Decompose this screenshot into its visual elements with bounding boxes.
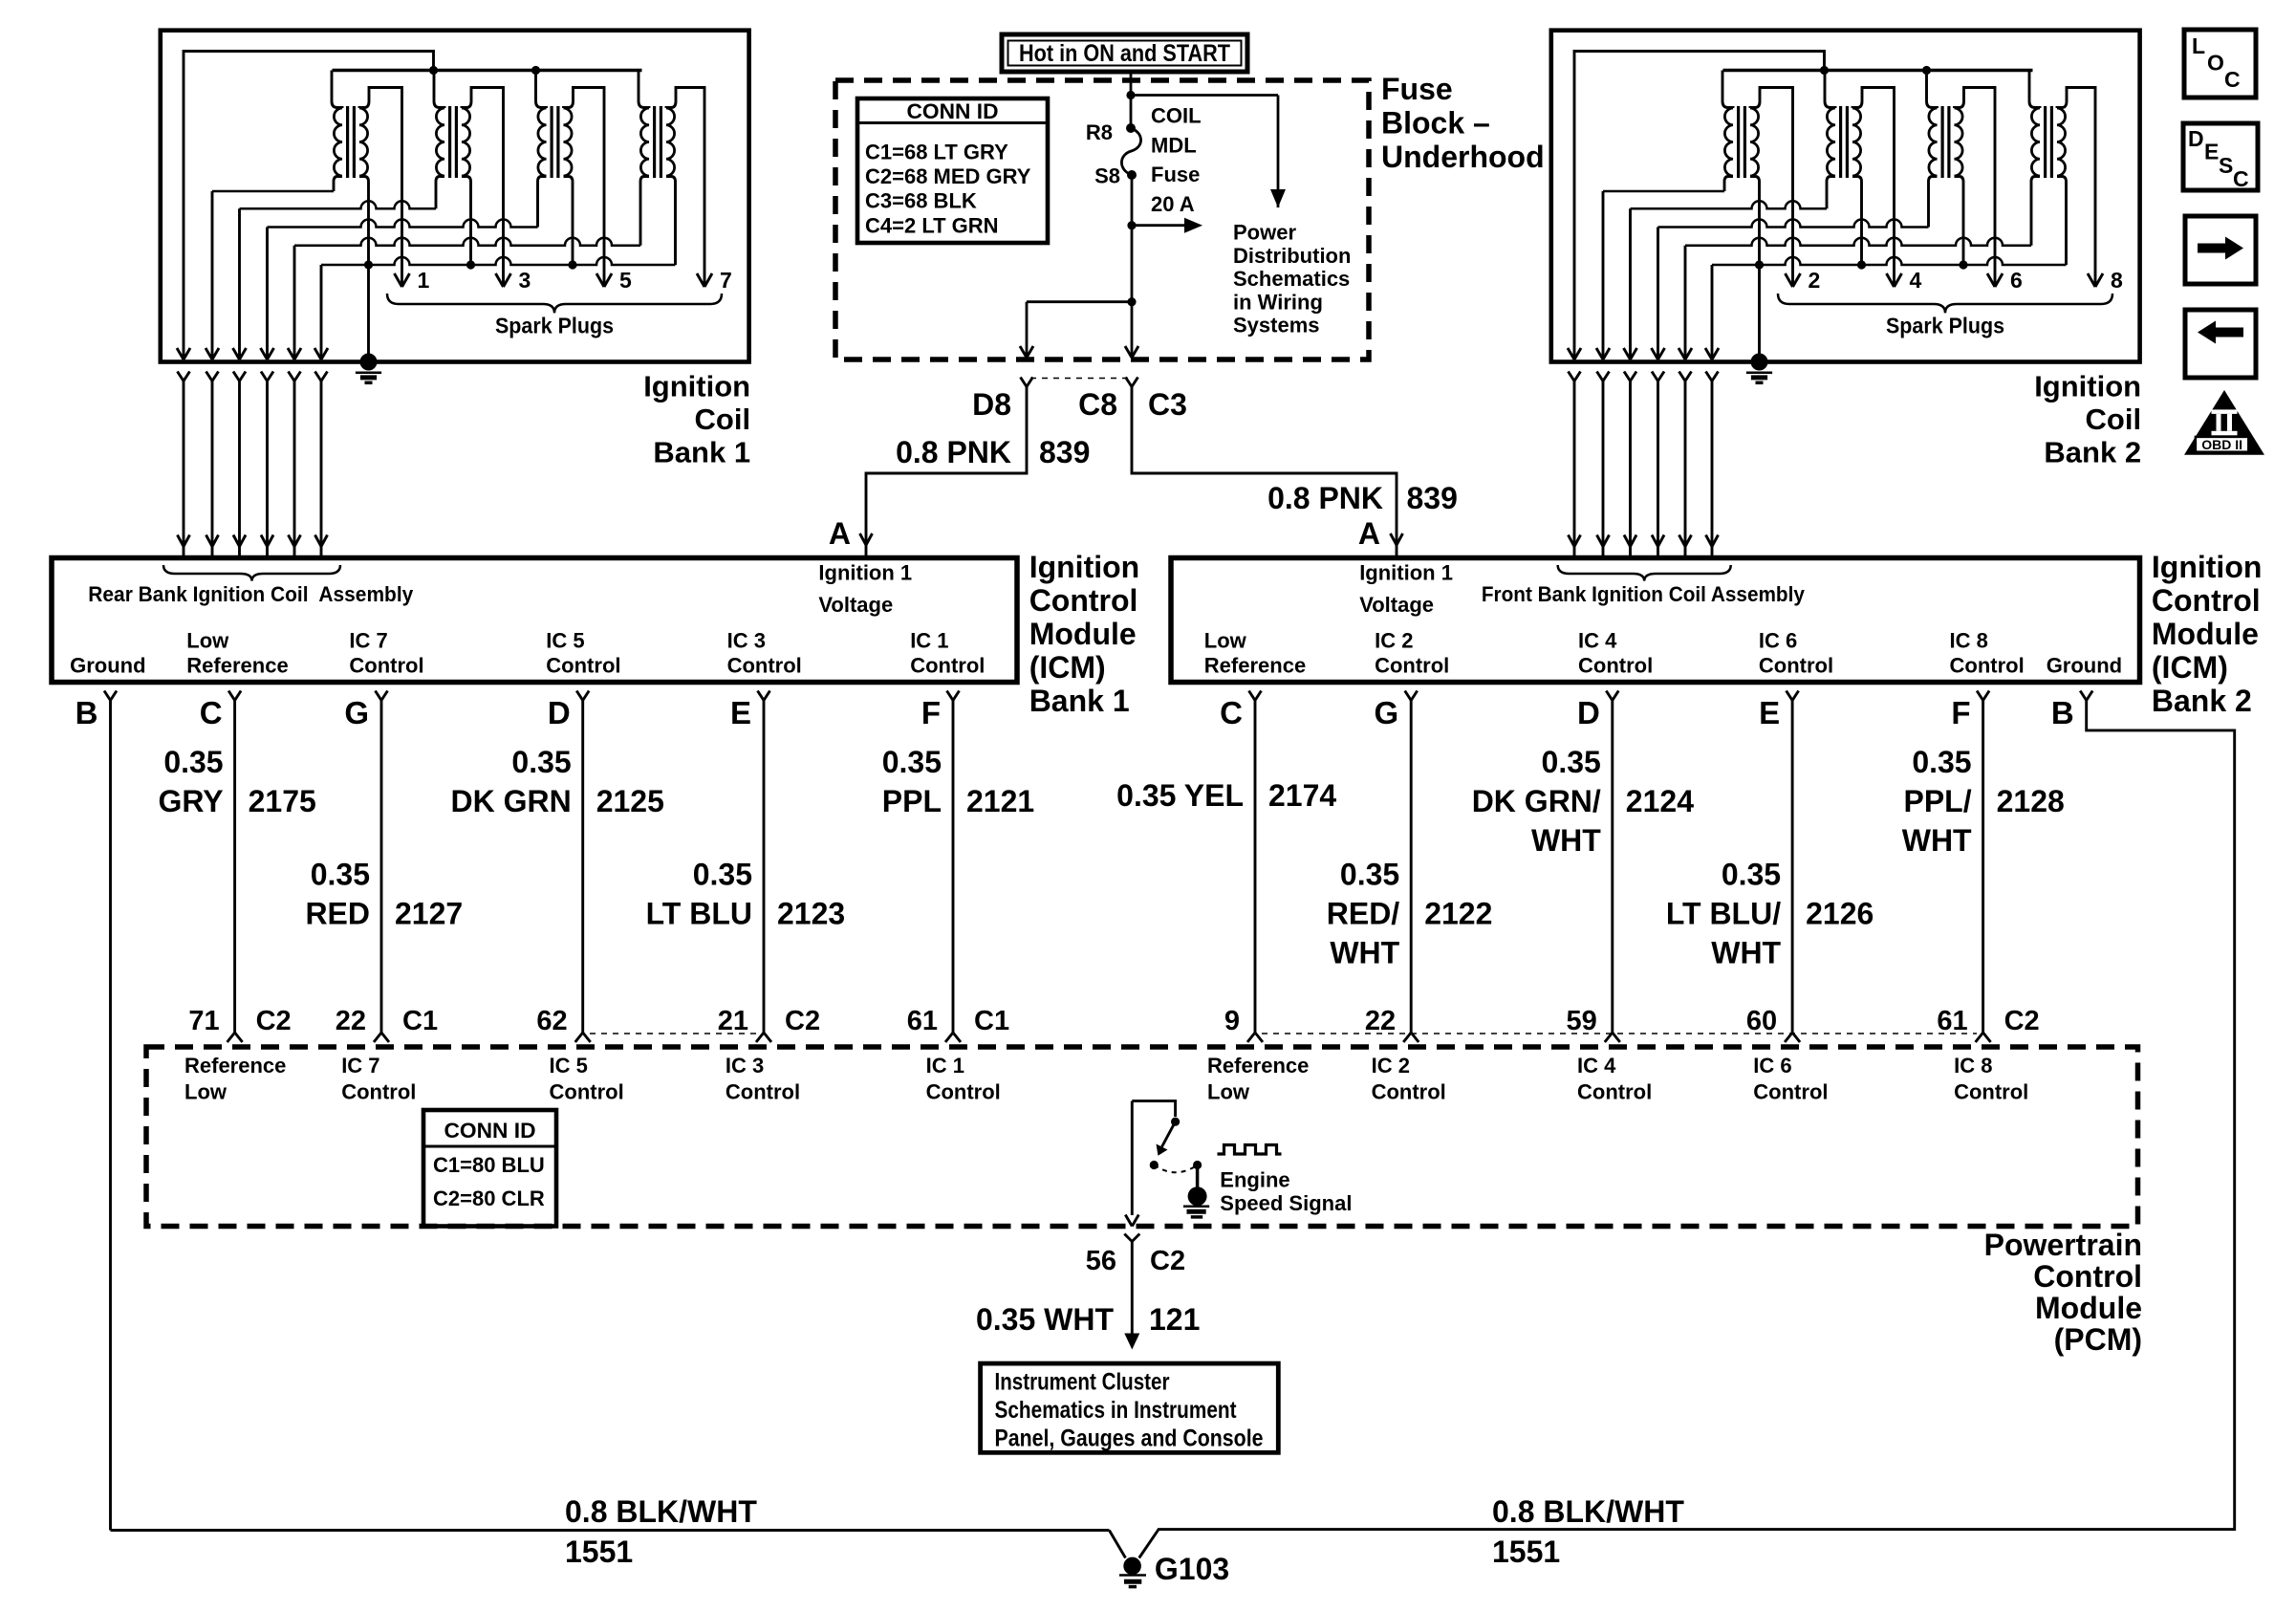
wire Low Reference 2175 bank1 [227,701,243,1043]
svg-text:RED: RED [305,897,370,931]
svg-text:2174: 2174 [1268,778,1336,813]
CONN ID row C2=80 CLR [433,1186,545,1210]
connector pin below Bank 1 x250 [233,372,246,559]
svg-text:Ignition: Ignition [1029,550,1140,584]
svg-text:E: E [2204,140,2219,164]
CONN ID row C3=68 BLK [865,189,977,213]
svg-text:PPL: PPL [882,784,942,818]
svg-text:839: 839 [1039,435,1090,469]
svg-text:56: 56 [1086,1246,1116,1276]
coil T1 core [348,106,355,178]
power distribution label line 5 [1233,314,1320,337]
svg-text:2126: 2126 [1806,897,1874,931]
svg-text:Module: Module [1029,617,1137,651]
svg-text:IC 4: IC 4 [1577,1054,1616,1078]
coil T4 primary top lead [1825,71,1835,109]
wire to C3 exit [1125,302,1138,358]
ground (engine speed) [1183,1186,1209,1217]
svg-text:Fuse: Fuse [1151,163,1200,186]
coil T2 primary winding [1724,108,1733,176]
PCM pin number 60 at x1875 [1746,1006,1777,1036]
label ICM1 name line 5 Bank 1 [1029,684,1130,718]
svg-text:60: 60 [1746,1006,1777,1036]
label Ignition 1 Voltage (ICM1) [818,561,912,618]
svg-text:IC 7: IC 7 [349,629,387,653]
svg-text:2128: 2128 [1997,784,2065,818]
svg-text:IC 1: IC 1 [910,629,948,653]
svg-text:Schematics in Instrument: Schematics in Instrument [995,1397,1238,1424]
svg-text:1551: 1551 [1492,1535,1560,1569]
wire coil T8 primary control [1679,177,2040,360]
svg-text:DK GRN/: DK GRN/ [1472,784,1601,818]
svg-text:S: S [2219,153,2233,178]
wire ICM1 B ground 1551 [111,701,1126,1558]
coil T3 primary top lead [434,71,444,109]
svg-text:IC 6: IC 6 [1759,629,1797,653]
coil T5 primary top lead [536,71,547,109]
svg-text:IC 5: IC 5 [550,1054,588,1078]
label D8 [972,387,1011,422]
label Bank 2 line 2 [2086,403,2142,436]
label 0.8 PNK (left) [896,435,1011,469]
Bank 1 box [161,31,749,362]
svg-text:G103: G103 [1155,1552,1229,1586]
wire IC5 control 2125 bank1 [575,701,591,1043]
svg-text:2121: 2121 [966,784,1034,818]
svg-text:0.8 BLK/WHT: 0.8 BLK/WHT [565,1494,757,1529]
svg-text:C3=68 BLK: C3=68 BLK [865,189,977,213]
square wave symbol [1218,1145,1282,1155]
fuse block dashed box [835,80,1369,359]
CONN ID row C1=68 LT GRY [865,140,1008,163]
ICM bottom connector C x245 [228,691,241,701]
svg-text:121: 121 [1149,1302,1200,1337]
svg-text:IC 8: IC 8 [1950,629,1988,653]
spark plug 1 number label [418,268,430,293]
wire coil T4 to spark plug 4 [1852,88,1902,288]
svg-text:6: 6 [2010,268,2023,293]
node secondary bus junction 3 Bank 2 [1959,260,1967,269]
svg-text:Control: Control [1029,583,1138,618]
svg-text:WHT: WHT [1330,936,1399,970]
ICM bottom connector D x609 [576,691,589,701]
svg-text:IC 6: IC 6 [1753,1054,1791,1078]
hot in ON and START label [1019,40,1230,67]
icon OBD II triangle [2184,390,2264,455]
PCM pin number 9 at x1313 [1224,1006,1240,1036]
label 839 (right) [1407,481,1458,515]
PCM pin label PCM Ref Low bank1 [184,1054,286,1104]
power distribution label line 4 [1233,290,1323,314]
svg-text:CONN ID: CONN ID [907,99,999,123]
node switch left contact [1150,1161,1159,1169]
svg-text:0.35: 0.35 [511,745,571,779]
node feed branch [1126,91,1135,99]
svg-text:Ignition: Ignition [2034,370,2141,403]
PCM pin label PCM IC3 [726,1054,800,1104]
coil T1 secondary winding [359,108,368,176]
svg-text:0.35: 0.35 [311,858,370,892]
fuse name line MDL [1151,133,1197,157]
label ICM1 name line 5 (ICM) [1029,650,1106,685]
label PCM name line Powertrain [1984,1228,2142,1262]
wire label 0.35 LT BLU 2123 [646,858,846,931]
svg-text:Control: Control [349,654,423,678]
label 121 [1149,1302,1200,1337]
svg-text:WHT: WHT [1711,936,1781,970]
icon DESC letters [2188,126,2249,191]
wire IC4 control 2124 bank2 [1605,701,1620,1043]
PCM pin number 71 at x245 [188,1006,291,1036]
PCM pin label PCM IC6 [1753,1054,1828,1104]
svg-text:D: D [2188,126,2204,151]
ICM bottom connector G x399 [376,691,388,701]
svg-text:2122: 2122 [1424,897,1492,931]
label 839 (left) [1039,435,1090,469]
wire label 0.35 RED/WHT 2122 [1327,858,1493,970]
CONN ID box (fuse block) [857,98,1048,243]
svg-text:IC 2: IC 2 [1372,1054,1410,1078]
svg-text:Low: Low [184,1080,227,1104]
svg-text:D: D [1577,695,1600,730]
connector pin below Bank 1 x192 [178,372,190,559]
wire IC2 control 2122 bank2 [1403,701,1419,1043]
PCM pin label PCM IC5 [550,1054,624,1104]
ICM pin label ICM2 Low Reference [1204,629,1306,678]
svg-text:Ignition: Ignition [643,370,750,403]
ICM bottom connector F x2074 [1977,691,1989,701]
svg-text:Control: Control [1759,654,1833,678]
svg-text:0.8 PNK: 0.8 PNK [896,435,1011,469]
svg-text:Bank 1: Bank 1 [1029,684,1130,718]
icon DESC box [2183,123,2258,190]
wire coil T6 to spark plug 6 [1955,88,2004,288]
svg-text:Control: Control [1950,654,2025,678]
svg-text:0.35: 0.35 [882,745,942,779]
svg-text:C2: C2 [1150,1246,1185,1276]
label Speed Signal [1220,1191,1352,1215]
icon LOC box [2184,30,2256,98]
label ICM2 name line Control [2152,583,2261,618]
switch ground stem [1196,1165,1200,1190]
wire IC7 control 2127 bank1 [374,701,389,1043]
wire engine speed signal stub [1125,1101,1175,1227]
svg-text:Coil: Coil [695,403,751,436]
svg-text:Control: Control [546,654,620,678]
wire coil T4 primary control [1624,177,1836,360]
svg-text:A: A [1358,516,1380,551]
svg-text:2124: 2124 [1626,784,1694,818]
svg-text:59: 59 [1567,1006,1597,1036]
node secondary bus junction 3 Bank 1 [568,260,576,269]
svg-text:C2=80 CLR: C2=80 CLR [433,1186,545,1210]
coil T2 primary top lead [1722,71,1733,109]
node bus junction 2 Bank 1 [531,66,540,75]
svg-text:Reference: Reference [186,654,288,678]
spark plug 6 number label [2010,268,2023,293]
ICM pin label ICM2 IC6 [1759,629,1833,678]
CONN ID header (fuse block) [907,99,999,123]
ICM bottom connector G x1476 [1405,691,1418,701]
wire coil T1 secondary return lead [359,177,369,266]
coil T1 primary winding [334,108,342,176]
wire coil T6 secondary return lead [1955,177,1964,266]
node bus junction 2 Bank 2 [1922,66,1931,75]
svg-text:Ignition 1: Ignition 1 [818,561,912,585]
coil T5 primary winding [538,108,547,176]
svg-text:(ICM): (ICM) [1029,650,1106,685]
label PCM name line Module [2035,1291,2142,1325]
fuse block label line 3 [1381,140,1545,174]
svg-text:Voltage: Voltage [818,593,893,617]
svg-text:8: 8 [2111,268,2123,293]
svg-text:RED/: RED/ [1327,897,1400,931]
CONN ID row C2=68 MED GRY [865,164,1031,188]
ICM bottom connector C x1313 [1249,691,1262,701]
switch blade engine speed [1157,1121,1176,1156]
svg-text:C2: C2 [256,1006,292,1036]
svg-text:Panel, Gauges and Console: Panel, Gauges and Console [995,1426,1264,1452]
PCM pin number 21 at x799 [718,1006,820,1036]
coil T4 primary winding [1827,108,1835,176]
svg-text:IC 1: IC 1 [926,1054,964,1078]
spark plug 5 number label [619,268,632,293]
svg-text:IC 3: IC 3 [726,1054,764,1078]
connector link bank2 pins [1262,1033,1977,1034]
svg-text:E: E [730,695,751,730]
label ICM1 name line 5 Module [1029,617,1137,651]
label Ignition 1 Voltage (ICM2) [1359,561,1453,618]
PCM pin number 61 at x2074 [1937,1006,2039,1036]
svg-text:C1: C1 [974,1006,1009,1036]
svg-text:Systems: Systems [1233,314,1320,337]
svg-text:C2: C2 [2004,1006,2040,1036]
ICM2 coil assembly brace [1558,565,1731,581]
ICM bottom connector B x115 [104,691,117,701]
svg-text:Control: Control [1954,1080,2028,1104]
svg-text:Voltage: Voltage [1359,593,1434,617]
PCM pin label PCM IC4 [1577,1054,1652,1104]
label 0.8 PNK (right) [1267,481,1383,515]
svg-text:Speed Signal: Speed Signal [1220,1191,1352,1215]
connector link D8-C8 [1030,378,1128,380]
label Bank 1 line 3 [653,436,750,469]
svg-text:Spark Plugs: Spark Plugs [1886,314,2004,338]
svg-text:B: B [2051,695,2074,730]
svg-text:1551: 1551 [565,1535,633,1569]
coil T1 primary top lead [332,71,342,109]
wire coil T4 secondary return lead [1852,177,1862,266]
node distribution branch [1127,221,1136,229]
ground stem Bank 1 [367,265,370,356]
svg-text:Control: Control [926,1080,1001,1104]
label ICM2 name line Ignition [2152,550,2263,584]
wire coil T1 primary control [206,177,342,360]
label Engine [1220,1168,1289,1192]
wire arrow to power distribution schematics [1132,218,1202,233]
svg-text:Hot in ON and START: Hot in ON and START [1019,40,1230,67]
svg-text:2127: 2127 [395,897,463,931]
PCM pin label PCM Ref Low bank2 [1207,1054,1309,1104]
svg-text:0.35: 0.35 [163,745,223,779]
ICM bottom connector B x2182 [2080,691,2092,701]
fuse terminal S8 [1127,170,1137,180]
ICM pin label ICM2 Ground [2047,654,2122,678]
svg-text:C: C [2224,67,2241,92]
svg-text:A: A [829,516,851,551]
svg-text:0.35: 0.35 [1340,858,1399,892]
PCM pin number 62 at x609 [536,1006,567,1036]
ICM Bank 2 box [1171,558,2140,683]
svg-text:Control: Control [726,1080,800,1104]
svg-text:Ignition 1: Ignition 1 [1359,561,1453,585]
PCM pin label PCM IC7 [341,1054,416,1104]
wire coil T8 to spark plug 8 [2057,88,2103,288]
svg-text:Control: Control [2033,1259,2142,1294]
wire coil T2 to spark plug 2 [1750,88,1801,288]
ICM bottom connector E x1875 [1787,691,1799,701]
svg-text:Rear Bank Ignition Coil Assem: Rear Bank Ignition Coil Assembly [88,582,414,606]
svg-text:5: 5 [619,268,632,293]
node D8 branch [1127,297,1136,306]
coil T8 primary top lead [2029,71,2040,109]
coil T3 secondary winding [462,108,470,176]
label C3 [1148,387,1187,422]
connector pin below Bank 1 x222 [206,372,219,559]
svg-text:L: L [2192,33,2205,58]
PCM pin label PCM IC1 [926,1054,1001,1104]
svg-text:3: 3 [519,268,531,293]
svg-text:IC 2: IC 2 [1375,629,1413,653]
svg-text:Powertrain: Powertrain [1984,1228,2142,1262]
spark plug 8 number label [2111,268,2123,293]
node switch right contact [1193,1161,1202,1169]
PCM pin number 22 at x399 [336,1006,438,1036]
svg-text:PPL/: PPL/ [1903,784,1971,818]
svg-text:0.35: 0.35 [693,858,752,892]
Bank 2 box [1551,31,2140,362]
power distribution label line 3 [1233,267,1350,291]
spark plugs label Bank 2 [1886,314,2004,338]
wire IC3 control 2123 bank1 [756,701,771,1043]
ICM pin label ICM1 IC1 [910,629,985,678]
svg-text:0.35: 0.35 [1722,858,1781,892]
svg-text:7: 7 [720,268,732,293]
icon left arrow [2198,321,2243,344]
wire IC6 control 2126 bank2 [1785,701,1800,1043]
fuse name line Fuse [1151,163,1200,186]
wire label 0.35 DK GRN 2125 [450,745,663,818]
label PCM name line (PCM) [2054,1322,2142,1357]
instrument cluster label line 1 [995,1369,1170,1396]
fuse name line 20 A [1151,192,1195,216]
fuse name line COIL [1151,104,1202,128]
svg-text:0.35 YEL: 0.35 YEL [1116,778,1244,813]
svg-text:IC 3: IC 3 [727,629,766,653]
label Bank 2 line 1 [2034,370,2141,403]
coil T8 core [2046,106,2052,178]
svg-text:0.35: 0.35 [1912,745,1971,779]
svg-text:S8: S8 [1094,164,1120,188]
icon LOC letters [2192,33,2241,92]
coil T4 secondary winding [1852,108,1861,176]
PCM pin number 61 at x997 [907,1006,1009,1036]
power distribution label line 1 [1233,221,1296,245]
wire coil T2 primary control [1596,177,1733,360]
ICM pin label ICM1 IC5 [546,629,620,678]
svg-text:Module: Module [2152,617,2259,651]
svg-text:0.8 PNK: 0.8 PNK [1267,481,1383,515]
svg-text:9: 9 [1224,1006,1240,1036]
svg-text:Ignition: Ignition [2152,550,2263,584]
node secondary bus junction 2 Bank 1 [466,260,475,269]
label 0.8 BLK/WHT (right) [1492,1494,1684,1529]
spark plug 2 number label [1809,268,1821,293]
svg-text:Module: Module [2035,1291,2142,1325]
svg-text:IC 5: IC 5 [546,629,584,653]
svg-text:Reference: Reference [1207,1054,1309,1078]
node bus junction 1 Bank 1 [429,66,438,75]
PCM pin label PCM IC2 [1372,1054,1446,1104]
connector link 62-21 [590,1033,757,1034]
wire label 0.35 PPL 2121 [882,745,1034,818]
svg-text:Control: Control [550,1080,624,1104]
wire coil T7 primary control [288,177,649,360]
icon right-arrow box [2185,216,2256,284]
svg-text:LT BLU/: LT BLU/ [1666,897,1781,931]
connector pin below Bank 1 x308 [289,372,301,559]
svg-text:R8: R8 [1086,120,1113,144]
svg-text:Bank 1: Bank 1 [653,436,750,469]
svg-text:2125: 2125 [596,784,664,818]
label pin C x1313 [1220,695,1243,730]
coil T8 secondary winding [2057,108,2066,176]
svg-text:22: 22 [1365,1006,1396,1036]
wire coil T5 to spark plug 5 [564,88,613,288]
svg-text:61: 61 [1937,1006,1967,1036]
wire label 0.35 YEL 2174 [1116,778,1336,813]
svg-text:C1=68 LT GRY: C1=68 LT GRY [865,140,1008,163]
svg-text:839: 839 [1407,481,1458,515]
wire C3 to ICM2 pin A [1132,408,1403,558]
wire IC8 control 2128 bank2 [1976,701,1991,1043]
label Rear Bank Ignition Coil Assembly [88,582,414,606]
spark plug 4 number label [1910,268,1922,293]
connector pin 56 [1124,1234,1139,1335]
svg-text:0.35: 0.35 [1542,745,1601,779]
ground stem Bank 2 [1758,265,1761,356]
label pin G x399 [344,695,369,730]
PCM pin number 59 at x1686 [1567,1006,1597,1036]
svg-text:IC 8: IC 8 [1954,1054,1992,1078]
svg-text:Reference: Reference [1204,654,1306,678]
PCM pin label PCM IC8 [1954,1054,2028,1104]
spark plugs brace Bank 1 [387,294,722,313]
wire distribution node down [1131,226,1134,302]
wire D8 to ICM1 pin A [860,408,1028,558]
svg-text:Power: Power [1233,221,1296,245]
connector pin below Bank 2 x1791 [1706,372,1719,559]
connector pin below Bank 1 x336 [315,372,328,559]
svg-text:2: 2 [1809,268,1821,293]
label pin F x997 [921,695,941,730]
connector pin below Bank 2 x1734 [1652,372,1664,559]
CONN ID header (PCM) [444,1119,536,1143]
svg-text:Low: Low [186,629,229,653]
svg-text:B: B [76,695,98,730]
fuse terminal R8 [1126,123,1136,133]
svg-text:C2: C2 [785,1006,820,1036]
